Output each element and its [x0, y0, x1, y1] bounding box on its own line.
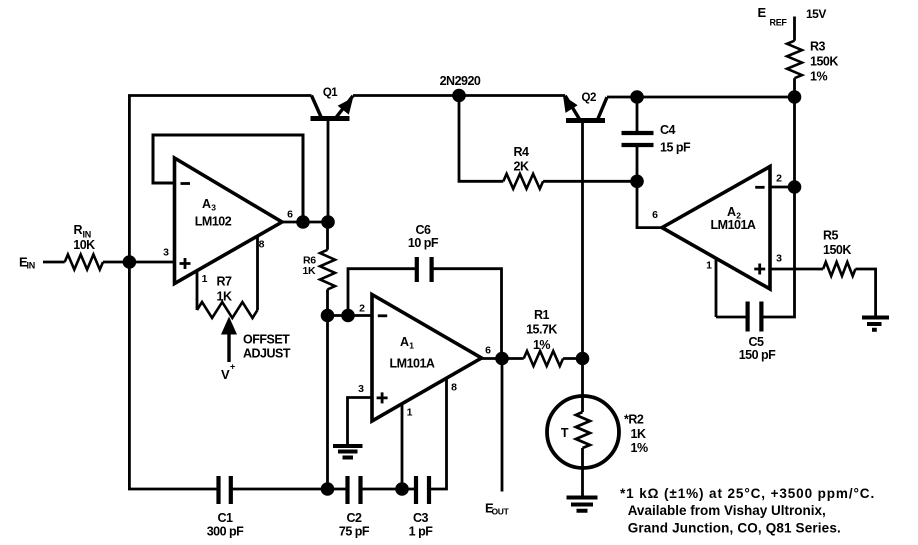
- op-amp A3 LM102 triangle: [175, 158, 283, 284]
- svg-text:LM102: LM102: [195, 215, 232, 229]
- wire Q1 emitter to 2N2920 node: [353, 94, 459, 97]
- wire A3 feedback loop output to inverting input: [153, 135, 303, 222]
- node C4 top junction: [630, 90, 644, 104]
- wire A1 pin 3 to ground: [348, 398, 373, 445]
- svg-text:A: A: [727, 205, 736, 219]
- svg-text:10 pF: 10 pF: [408, 236, 439, 250]
- svg-text:3: 3: [358, 383, 364, 395]
- wire R3 rail from 15V down to C5: [761, 17, 794, 318]
- minus sign A1: [378, 314, 387, 317]
- svg-text:R: R: [74, 223, 83, 237]
- ground A1 pin 3: [333, 446, 363, 458]
- svg-text:V: V: [221, 367, 230, 382]
- node bottom bus pin1 junction: [395, 482, 409, 496]
- svg-text:1: 1: [409, 341, 414, 351]
- capacitor C3: [416, 476, 429, 504]
- resistor R1: [524, 351, 563, 366]
- wire E_IN input to A3 pin 3: [43, 261, 175, 264]
- transistor Q2: [564, 96, 607, 121]
- svg-text:10K: 10K: [73, 238, 95, 252]
- op-amp A2 LM101A triangle: [662, 167, 770, 290]
- capacitor C2: [348, 476, 361, 504]
- node bottom bus R6 rail junction: [321, 482, 335, 496]
- svg-text:A: A: [400, 335, 409, 349]
- svg-text:T: T: [561, 426, 569, 440]
- svg-text:8: 8: [451, 382, 457, 394]
- svg-text:15V: 15V: [806, 7, 826, 21]
- node A1 pin2 rail junction: [321, 309, 335, 323]
- svg-text:*1 kΩ (±1%) at 25°C, +3500 ppm: *1 kΩ (±1%) at 25°C, +3500 ppm/°C.: [620, 486, 875, 501]
- svg-text:C1: C1: [218, 511, 234, 525]
- svg-text:E: E: [758, 5, 767, 20]
- svg-text:1%: 1%: [533, 338, 550, 352]
- svg-text:1K: 1K: [303, 265, 317, 277]
- wire Q2 emitter from 2N2920 node: [459, 94, 565, 97]
- wire A3 output pin 6: [282, 221, 328, 224]
- svg-text:1%: 1%: [810, 70, 827, 84]
- op-amp A1 LM101A triangle: [372, 295, 482, 422]
- svg-text:Q1: Q1: [323, 87, 338, 99]
- wire A1 pin 2 input: [328, 314, 372, 317]
- node A3 output dot 1: [296, 215, 310, 229]
- svg-text:Available from Vishay Ultronix: Available from Vishay Ultronix,: [628, 503, 826, 518]
- svg-text:2: 2: [776, 173, 782, 185]
- svg-text:R4: R4: [514, 145, 530, 159]
- svg-text:C2: C2: [347, 511, 363, 525]
- wire A2 pin 1 lead: [715, 259, 718, 317]
- wire Q2 collector to R3 rail: [607, 96, 795, 99]
- svg-text:OUT: OUT: [492, 507, 510, 517]
- node C6 corner junction: [341, 309, 355, 323]
- node A1 output junction: [495, 352, 509, 366]
- wire R6 rail: node to A1 pin2 node to bottom bus: [326, 222, 329, 489]
- wire bottom bus C2 to C3: [361, 488, 417, 491]
- wire Q2 base rail down to R1/R2 node: [581, 120, 584, 358]
- svg-text:REF: REF: [770, 18, 788, 28]
- node A2 pin 2 junction: [788, 180, 802, 194]
- wire A1 pin 1 lead: [401, 404, 404, 489]
- svg-text:150K: 150K: [823, 243, 851, 257]
- svg-text:A: A: [202, 197, 211, 211]
- offset adjust wiper arrow: [221, 317, 237, 363]
- svg-text:3: 3: [776, 253, 782, 265]
- wire R5 to ground: [855, 269, 875, 316]
- svg-text:LM101A: LM101A: [390, 357, 435, 371]
- transistor Q1: [311, 96, 354, 119]
- minus sign A3: [181, 182, 191, 185]
- wire A1 output pin 6 to R1: [482, 357, 524, 360]
- wire EOUT rail: [501, 359, 504, 492]
- wire A1 pin 8 lead to C3: [429, 379, 447, 489]
- node R1/R2 junction: [576, 352, 590, 366]
- wire A2 pin 2 to rail: [770, 186, 795, 189]
- svg-text:3: 3: [163, 247, 169, 259]
- svg-text:R5: R5: [823, 229, 839, 243]
- ground R5: [862, 318, 889, 330]
- capacitor C5: [716, 302, 761, 332]
- resistor RIN: [65, 255, 103, 270]
- svg-text:1%: 1%: [631, 441, 648, 455]
- wire bottom bus C1 to C2: [231, 488, 348, 491]
- capacitor C1: [219, 476, 231, 504]
- svg-text:Grand Junction, CO, Q81 Series: Grand Junction, CO, Q81 Series.: [628, 521, 841, 536]
- svg-text:R1: R1: [534, 308, 550, 322]
- wire C6 feedback loop: [348, 269, 502, 359]
- svg-text:15 pF: 15 pF: [660, 141, 691, 155]
- capacitor C4: [622, 97, 654, 181]
- svg-text:*R2: *R2: [624, 413, 644, 427]
- svg-text:3: 3: [211, 203, 216, 213]
- plus sign A3: [180, 258, 191, 269]
- svg-text:+: +: [230, 362, 235, 372]
- svg-text:2K: 2K: [514, 160, 529, 174]
- svg-text:6: 6: [652, 209, 658, 221]
- node 2N2920 junction: [452, 89, 466, 103]
- svg-text:ADJUST: ADJUST: [243, 347, 291, 361]
- svg-text:6: 6: [485, 345, 491, 357]
- svg-text:IN: IN: [27, 261, 35, 271]
- minus sign A2: [755, 186, 764, 189]
- thermistor R2: [547, 359, 619, 497]
- svg-text:C3: C3: [413, 511, 429, 525]
- wire Q1 base lead down to A3 output node: [327, 121, 330, 223]
- plus sign A2: [754, 264, 765, 275]
- svg-text:150 pF: 150 pF: [739, 348, 776, 362]
- svg-text:75 pF: 75 pF: [339, 525, 370, 539]
- svg-text:OFFSET: OFFSET: [243, 333, 290, 347]
- svg-text:1K: 1K: [217, 290, 232, 304]
- svg-text:C5: C5: [749, 335, 765, 349]
- node A3 output dot 2: [321, 215, 335, 229]
- svg-text:C6: C6: [416, 223, 432, 237]
- svg-text:1 pF: 1 pF: [409, 525, 434, 539]
- svg-text:150K: 150K: [810, 55, 838, 69]
- capacitor C6: [417, 257, 432, 282]
- node EIN junction: [123, 255, 137, 269]
- svg-text:1: 1: [706, 260, 712, 272]
- svg-text:R3: R3: [810, 40, 826, 54]
- wire R4 to C4 bottom node: [543, 180, 637, 183]
- resistor R3: [787, 41, 802, 78]
- svg-text:C4: C4: [660, 123, 676, 137]
- svg-text:8: 8: [259, 239, 265, 251]
- ground thermistor: [567, 498, 598, 511]
- svg-text:R7: R7: [217, 275, 233, 289]
- svg-text:1K: 1K: [631, 427, 646, 441]
- plus sign A1: [377, 392, 388, 403]
- svg-text:Q2: Q2: [582, 92, 596, 104]
- svg-text:2: 2: [359, 303, 365, 315]
- svg-text:2N2920: 2N2920: [440, 74, 481, 88]
- svg-text:1: 1: [407, 407, 413, 419]
- resistor R6: [320, 250, 335, 290]
- wire R1 to R2 node: [563, 357, 582, 360]
- svg-text:6: 6: [287, 209, 293, 221]
- wire 2N2920 node down and right to R4: [459, 96, 503, 182]
- resistor R5: [823, 262, 855, 276]
- node C4 bottom / A2 output junction: [630, 175, 644, 189]
- node R3 bottom junction: [788, 90, 802, 104]
- svg-text:15.7K: 15.7K: [526, 323, 557, 337]
- wire left rail from top corner down to bottom bus: [129, 96, 311, 490]
- potentiometer R7: [197, 236, 258, 318]
- wire A2 pin 3 to R5: [770, 268, 823, 271]
- svg-text:LM101A: LM101A: [711, 218, 756, 232]
- svg-text:300 pF: 300 pF: [207, 525, 244, 539]
- resistor R4: [503, 174, 543, 189]
- wire A2 output pin 6: [637, 181, 662, 227]
- svg-text:1: 1: [202, 273, 208, 285]
